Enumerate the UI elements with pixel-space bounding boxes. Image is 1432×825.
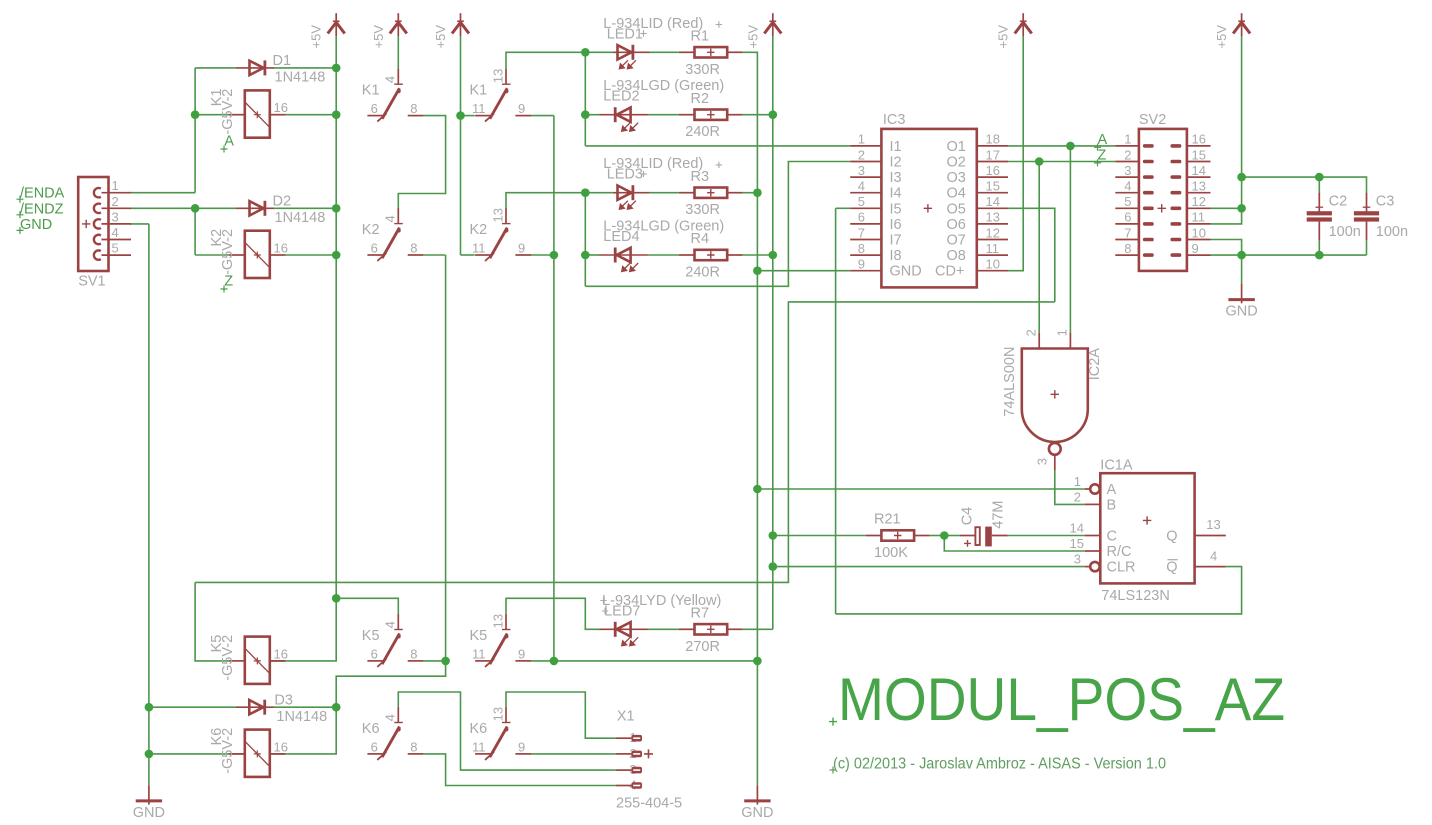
wire IC3 CD+ to +5V (1008, 36, 1023, 271)
IC3 pin 7 (I7) (850, 239, 881, 241)
wire LED3 anode (585, 192, 613, 194)
svg-text:K5: K5 (470, 628, 488, 644)
svg-text:8: 8 (410, 646, 417, 661)
relay coil K1 (245, 90, 270, 137)
svg-text:A: A (224, 134, 234, 150)
SV2 pin 14 (1187, 176, 1211, 178)
capacitor C2 (1318, 192, 1320, 211)
wire K2B pin13 to LED3 node (506, 193, 585, 208)
svg-text:2: 2 (1124, 147, 1131, 162)
SV2 pin 4 (1115, 192, 1139, 194)
wire K5A pin8 (423, 660, 445, 662)
svg-text:R/C: R/C (1107, 544, 1132, 560)
IC IC1A 74LS123N (box) (1100, 473, 1194, 583)
svg-text:1: 1 (1074, 474, 1081, 489)
svg-text:8: 8 (410, 241, 417, 256)
wire LED1 to R1 (649, 51, 679, 53)
svg-text:11: 11 (472, 739, 486, 754)
svg-text:LED7: LED7 (604, 603, 640, 619)
resistor R21 (881, 530, 914, 540)
wire K1B pin13 to LED1 node (506, 52, 585, 68)
svg-text:I3: I3 (890, 170, 902, 186)
junction (1237, 204, 1246, 213)
wire C4 to IC1A C (1008, 535, 1085, 537)
wire rail to K5A pin4 (336, 598, 398, 614)
junction (581, 110, 590, 119)
junction (581, 188, 590, 197)
svg-text:+5V: +5V (996, 25, 1011, 49)
svg-text:8: 8 (410, 101, 417, 116)
svg-text:2: 2 (1074, 489, 1081, 504)
SV2 pin 12 (1187, 207, 1211, 209)
wire node to C4 (944, 535, 959, 537)
svg-text:9: 9 (518, 241, 525, 256)
nand gate IC2A 74ALS00N (1022, 349, 1088, 443)
svg-text:12: 12 (1192, 194, 1206, 209)
junction (1315, 251, 1324, 260)
svg-text:IC3: IC3 (883, 112, 906, 128)
power +5V (SV2) (1233, 13, 1250, 36)
wire +5V right column (1241, 36, 1243, 177)
SV2 pin 1 (1115, 145, 1139, 147)
wire vertical to K2 coil (194, 208, 196, 255)
IC3 pin 16 (O3) (977, 176, 1008, 178)
ground (SV2) (1228, 284, 1254, 303)
svg-text:Z: Z (224, 274, 233, 290)
wire SV1 pin3 GND (130, 223, 149, 225)
wire node to K6 coil 16 (270, 661, 446, 754)
svg-text:13: 13 (1192, 179, 1206, 194)
svg-text:16: 16 (274, 646, 288, 661)
svg-text:4: 4 (858, 179, 865, 194)
svg-text:1N4148: 1N4148 (275, 69, 326, 85)
wire to K2B pin11 (461, 254, 475, 256)
svg-text:10: 10 (1192, 225, 1206, 240)
origin cross IC1A (1143, 516, 1151, 524)
wire K6B pin13 to X1 pin1 (506, 692, 616, 738)
junction (581, 251, 590, 260)
svg-text:GND: GND (741, 805, 773, 821)
svg-text:13: 13 (490, 69, 505, 83)
wire O5 route to K5 coil (195, 302, 1055, 583)
resistor R3 (695, 188, 728, 198)
IC3 pin 14 (O5) (977, 207, 1008, 209)
svg-text:14: 14 (986, 194, 1000, 209)
wire O2 to IC2A pin2 (1038, 162, 1040, 334)
ground (bottom) (744, 785, 770, 804)
power +5V (K1B) (452, 13, 469, 36)
IC3 pin 8 (I8) (850, 254, 881, 256)
IC IC3 (box) (881, 129, 976, 288)
svg-text:3: 3 (858, 163, 865, 178)
svg-text:240R: 240R (685, 265, 720, 281)
svg-text:GND: GND (890, 264, 922, 280)
svg-text:R4: R4 (691, 231, 710, 247)
SV2 pin 7 (1115, 239, 1139, 241)
svg-text:16: 16 (274, 100, 288, 115)
svg-text:/ENDA: /ENDA (20, 186, 65, 202)
svg-text:R21: R21 (874, 512, 901, 528)
svg-text:Q: Q (1166, 529, 1177, 545)
wire I5 column down (835, 208, 837, 614)
ground (SV1) (136, 785, 162, 804)
resistor R2 (695, 110, 728, 120)
svg-text:I6: I6 (890, 217, 902, 233)
wire +5V to IC1A CLR (773, 566, 1085, 568)
wire K1A pin8 to K2A pin4 (398, 116, 445, 208)
junction (769, 251, 778, 260)
svg-text:LED2: LED2 (603, 89, 639, 105)
svg-text:I8: I8 (890, 248, 902, 264)
wire R1 to GND column (743, 52, 758, 661)
junction (1237, 173, 1246, 182)
wire K5 coil 16 to rail (270, 598, 336, 661)
capacitor C4 (960, 535, 975, 537)
svg-text:11: 11 (472, 101, 486, 116)
svg-text:100K: 100K (874, 545, 908, 561)
svg-text:C2: C2 (1329, 194, 1348, 210)
wire to K2 coil left (195, 254, 229, 256)
svg-text:4: 4 (1124, 179, 1131, 194)
power +5V (IC3 CD+) (1015, 13, 1032, 36)
diode D3 (236, 706, 273, 708)
wire LED4 cathode (585, 254, 600, 256)
wire D1 cathode to +5V rail (274, 67, 337, 69)
svg-text:/ENDZ: /ENDZ (20, 201, 64, 217)
IC1A pin 4 (Qbar) (1195, 566, 1226, 568)
junction (753, 657, 762, 666)
svg-text:GND: GND (20, 217, 52, 233)
wire LED3 to R3 (649, 192, 679, 194)
svg-text:LED4: LED4 (603, 229, 639, 245)
svg-text:GND: GND (1225, 304, 1257, 320)
svg-text:B: B (1107, 497, 1117, 513)
svg-text:100n: 100n (1376, 224, 1408, 240)
wire to K1B pin11 (461, 115, 475, 117)
svg-text:4: 4 (383, 215, 398, 222)
svg-text:4: 4 (383, 621, 398, 628)
wire R4 to +5V column (743, 254, 773, 256)
wire K2A pin8 (423, 254, 445, 256)
svg-text:3: 3 (112, 209, 119, 224)
IC3 pin 2 (I2) (850, 161, 881, 163)
svg-text:6: 6 (371, 241, 378, 256)
svg-text:R7: R7 (691, 606, 710, 622)
wire GND to D3 (149, 706, 238, 708)
SV2 pin 9 (1187, 254, 1211, 256)
relay contact K1 (13/11/9) (475, 69, 531, 122)
power +5V (resistors) (764, 13, 781, 36)
wire vertical +5V B (460, 116, 462, 255)
svg-text:2: 2 (112, 194, 119, 209)
svg-text:K2: K2 (362, 222, 380, 238)
svg-text:O7: O7 (947, 233, 966, 249)
wire node to IC1A R/C (944, 536, 1084, 552)
svg-text:255-404-5: 255-404-5 (616, 796, 682, 812)
junction (145, 750, 154, 759)
wire to K5 coil left (195, 582, 229, 661)
wire IC3 O1 to SV2 pin1 (net A) (1008, 145, 1115, 147)
wire vertical K2A pin8 down (445, 255, 447, 661)
IC3 pin 12 (O7) (977, 239, 1008, 241)
wire GND to IC1A A (757, 488, 1084, 490)
junction (332, 594, 341, 603)
wire IC1A Qbar to I5 route (836, 567, 1242, 614)
svg-text:6: 6 (371, 101, 378, 116)
svg-text:1: 1 (1124, 132, 1131, 147)
svg-text:R3: R3 (691, 169, 710, 185)
junction (191, 110, 200, 119)
wire +5V rail to C2 C3 (1242, 177, 1367, 192)
svg-text:O8: O8 (947, 248, 966, 264)
junction (581, 48, 590, 57)
svg-text:47M: 47M (990, 501, 1006, 529)
junction (332, 703, 341, 712)
svg-text:3: 3 (1034, 458, 1049, 465)
junction (769, 562, 778, 571)
SV2 pin 6 (1115, 223, 1139, 225)
svg-text:-G5V-2: -G5V-2 (220, 728, 236, 774)
svg-text:A: A (1098, 132, 1108, 148)
svg-text:13: 13 (490, 614, 505, 628)
wire R2 to +5V column (743, 114, 773, 116)
connector SV1 (78, 177, 108, 271)
power +5V (K1A) (390, 13, 407, 36)
relay coil K5 (245, 637, 270, 684)
wire SV2 pin12 (1211, 207, 1242, 209)
relay contact K6 (4/6/8) (367, 707, 423, 760)
svg-text:4: 4 (112, 225, 119, 240)
wire K6A pin4 to X1 pin3 (398, 692, 616, 770)
wire LED7 to R7 (648, 628, 679, 630)
wire SV2 pin9 GND row (1211, 254, 1367, 256)
SV2 pin 3 (1115, 176, 1139, 178)
IC1A pin 14 (C) (1085, 535, 1101, 537)
svg-text:6: 6 (371, 646, 378, 661)
svg-text:9: 9 (1192, 241, 1199, 256)
svg-text:15: 15 (1070, 536, 1084, 551)
SV2 pin 16 (1187, 145, 1211, 147)
svg-text:K2: K2 (470, 222, 488, 238)
svg-text:6: 6 (1124, 210, 1131, 225)
svg-text:A: A (1107, 482, 1117, 498)
power +5V (main rail) (328, 13, 345, 36)
relay contact K2 (4/6/8) (367, 208, 423, 261)
origin cross X1 (644, 749, 653, 758)
wire GND to K6 coil left (149, 753, 245, 755)
svg-text:5: 5 (112, 241, 119, 256)
capacitor C3 (1366, 192, 1368, 211)
svg-text:+5V: +5V (745, 25, 760, 49)
wire K6B pin9 to X1 pin2 (531, 753, 616, 755)
wire GND stem bottom (756, 661, 758, 785)
svg-text:IC2A: IC2A (1087, 348, 1103, 381)
IC3 pin 18 (O1) (977, 145, 1008, 147)
svg-text:LED1: LED1 (607, 26, 643, 42)
origin cross SV2 (1158, 204, 1166, 212)
wire LED4 to R4 (648, 254, 679, 256)
wire LED loop to IC3 I2 (585, 162, 850, 287)
svg-text:1: 1 (112, 178, 119, 193)
svg-text:1: 1 (1055, 329, 1070, 336)
wire +5V to SV2 pin11 (1211, 177, 1242, 224)
diode D1 (237, 67, 274, 69)
wire R3 to GND column (743, 192, 758, 194)
SV2 pin 10 (1187, 239, 1211, 241)
IC3 pin 1 (I1) (850, 145, 881, 147)
junction (1315, 173, 1324, 182)
svg-text:16: 16 (274, 241, 288, 256)
svg-text:I1: I1 (890, 139, 902, 155)
svg-text:O2: O2 (947, 155, 966, 171)
svg-text:16: 16 (274, 739, 288, 754)
svg-text:74ALS00N: 74ALS00N (1002, 347, 1018, 417)
svg-text:Z: Z (1098, 147, 1107, 163)
svg-text:1N4148: 1N4148 (276, 709, 327, 725)
svg-text:16: 16 (1192, 132, 1206, 147)
IC1A pin 1 (A, inverted) (1085, 488, 1091, 490)
svg-text:1: 1 (858, 132, 865, 147)
relay contact K5 (4/6/8) (367, 614, 423, 667)
svg-text:5: 5 (1124, 194, 1131, 209)
IC3 pin 3 (I3) (850, 176, 881, 178)
svg-text:11: 11 (1192, 210, 1206, 225)
wire R21 to C4 node (930, 535, 945, 537)
svg-text:+5V: +5V (309, 25, 324, 49)
relay contact K5 (13/11/9) (475, 614, 531, 667)
wire R7 to +5V column (743, 628, 773, 630)
svg-text:CLR: CLR (1107, 560, 1136, 576)
junction (332, 64, 341, 73)
svg-text:6: 6 (371, 739, 378, 754)
wire +5V to K1A pin4 (397, 36, 399, 69)
wire to K1 coil left (195, 114, 229, 116)
svg-text:C: C (1107, 529, 1117, 545)
origin cross IC3 (924, 204, 932, 212)
svg-text:14: 14 (1192, 163, 1206, 178)
svg-text:SV1: SV1 (78, 274, 105, 290)
wire LED2 to R2 (648, 114, 679, 116)
junction (332, 110, 341, 119)
svg-text:9: 9 (858, 257, 865, 272)
svg-text:11: 11 (472, 646, 486, 661)
SV2 pin 5 (1115, 207, 1139, 209)
svg-text:SV2: SV2 (1139, 112, 1166, 128)
wire K1B pin9 (531, 115, 554, 117)
svg-text:9: 9 (518, 101, 525, 116)
svg-text:16: 16 (986, 163, 1000, 178)
svg-text:14: 14 (1070, 521, 1084, 536)
wire C2 bottom to GND (1318, 240, 1320, 255)
junction (769, 110, 778, 119)
svg-text:5: 5 (858, 194, 865, 209)
svg-text:O5: O5 (947, 201, 966, 217)
svg-text:+5V: +5V (1214, 25, 1229, 49)
svg-text:74LS123N: 74LS123N (1101, 588, 1170, 604)
wire K2 coil 16 to rail (285, 254, 336, 256)
wire to D2 anode (195, 207, 237, 209)
SV2 pin 8 (1115, 254, 1139, 256)
svg-text:8: 8 (858, 241, 865, 256)
LED LED2 (600, 114, 648, 116)
junction (753, 485, 762, 494)
svg-text:15: 15 (1192, 147, 1206, 162)
SV2 pin 11 (1187, 223, 1211, 225)
svg-text:C3: C3 (1376, 194, 1395, 210)
wire SV2 pin10 to GND (1211, 240, 1242, 256)
connector SV2 (box) (1139, 129, 1187, 271)
wire GND vertical left (148, 224, 150, 785)
wire GND to IC3 pin9 (757, 270, 850, 272)
relay contact K1 (4/6/8) (367, 69, 423, 122)
svg-text:O6: O6 (947, 217, 966, 233)
svg-text:-G5V-2: -G5V-2 (220, 229, 236, 275)
svg-text:7: 7 (1124, 225, 1131, 240)
svg-text:D1: D1 (273, 53, 292, 69)
svg-text:4: 4 (1210, 549, 1217, 564)
svg-text:330R: 330R (685, 62, 720, 78)
svg-text:9: 9 (518, 646, 525, 661)
wire SV1 pin2 to node (130, 207, 196, 209)
junction (332, 251, 341, 260)
svg-text:K6: K6 (470, 721, 488, 737)
svg-text:I4: I4 (890, 186, 902, 202)
IC3 pin 10 (CD+) (977, 270, 1008, 272)
svg-text:6: 6 (858, 210, 865, 225)
svg-text:+5V: +5V (371, 25, 386, 49)
svg-text:IC1A: IC1A (1100, 458, 1133, 474)
wire LED1/LED2 anode column (584, 52, 586, 146)
wire to D1 anode (195, 67, 237, 69)
IC3 pin 17 (O2) (977, 161, 1008, 163)
svg-text:R1: R1 (691, 29, 710, 45)
IC3 pin 6 (I6) (850, 223, 881, 225)
IC1A pin 15 (R/C) (1085, 550, 1101, 552)
svg-text:Q: Q (1166, 560, 1177, 576)
wire K5B pin13 to LED7 (506, 598, 600, 629)
wire K1 coil 16 to rail (285, 114, 336, 116)
relay contact K2 (13/11/9) (475, 208, 531, 261)
svg-text:K1: K1 (362, 83, 380, 99)
svg-text:3: 3 (1124, 163, 1131, 178)
wire K6A pin8 to X1 pin4 (423, 754, 616, 786)
svg-text:-G5V-2: -G5V-2 (220, 89, 236, 135)
svg-text:11: 11 (472, 241, 486, 256)
wire O1 to IC2A pin1 (1069, 146, 1071, 333)
IC3 pin 5 (I5) (850, 207, 881, 209)
wire vertical K1B pin9 down (553, 116, 555, 661)
svg-text:17: 17 (986, 147, 1000, 162)
junction (1035, 157, 1044, 166)
svg-text:K5: K5 (362, 628, 380, 644)
SV2 pin 2 (1115, 161, 1139, 163)
wire D3 to rail node (274, 706, 337, 708)
relay coil K6 (245, 730, 270, 777)
junction (940, 531, 949, 540)
wire vertical D1/K1 left (194, 68, 196, 193)
svg-text:13: 13 (490, 208, 505, 222)
svg-text:D3: D3 (274, 693, 293, 709)
svg-text:K6: K6 (362, 721, 380, 737)
svg-text:2: 2 (1024, 329, 1039, 336)
svg-text:O4: O4 (947, 186, 966, 202)
svg-text:13: 13 (1206, 517, 1220, 532)
svg-text:I5: I5 (890, 201, 902, 217)
svg-text:R2: R2 (691, 91, 710, 107)
LED LED7 (600, 628, 648, 630)
svg-text:(c) 02/2013 - Jaroslav Ambroz: (c) 02/2013 - Jaroslav Ambroz - AISAS - … (833, 756, 1166, 773)
wire C2 top lead (1318, 177, 1320, 192)
